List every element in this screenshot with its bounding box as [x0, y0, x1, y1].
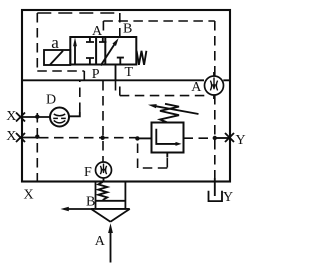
svg-text:B: B [86, 195, 95, 210]
svg-text:Y: Y [223, 190, 233, 205]
svg-text:X: X [24, 188, 34, 203]
svg-text:D: D [46, 92, 56, 107]
svg-text:A: A [92, 24, 103, 39]
svg-text:B: B [123, 22, 132, 37]
svg-text:A: A [95, 234, 106, 249]
svg-text:X: X [6, 129, 16, 144]
svg-text:T: T [125, 65, 134, 80]
svg-text:Y: Y [236, 133, 246, 148]
svg-text:P: P [92, 67, 100, 82]
svg-text:A: A [191, 80, 202, 95]
svg-text:X: X [6, 109, 16, 124]
svg-text:a: a [51, 33, 59, 52]
svg-text:F: F [84, 165, 92, 180]
